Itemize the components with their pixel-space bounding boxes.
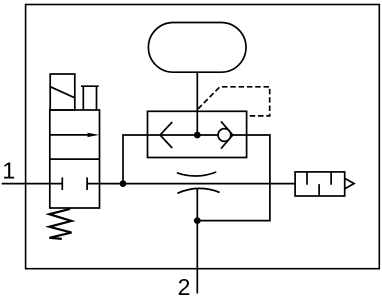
solenoid coil	[50, 74, 75, 110]
wire riser to valve block	[123, 135, 148, 184]
wire reservoir stem	[196, 72, 198, 135]
junction node port 2 tee	[194, 217, 201, 224]
blocked port bar right	[86, 177, 88, 190]
throttle upper arc	[177, 172, 216, 176]
exhaust flow chevron	[160, 122, 172, 148]
valve block body	[148, 111, 247, 157]
return spring	[49, 209, 71, 239]
silencer baffles	[307, 172, 331, 196]
pilot line (dashed)	[198, 87, 270, 116]
solenoid valve V1 body	[50, 110, 100, 208]
manual override button	[81, 86, 99, 110]
check valve ball	[218, 129, 231, 142]
solenoid diagonal	[50, 87, 75, 98]
internal flow line	[148, 134, 247, 136]
wire valve block outlet down to port 2 tee	[197, 135, 270, 221]
silencer outlet cone	[345, 178, 354, 189]
blocked port bar left	[61, 177, 63, 190]
wire main line valve outlet to silencer	[87, 183, 295, 185]
junction node valve outlet riser	[120, 180, 127, 187]
throttle lower arc	[177, 188, 219, 193]
flow path arrow (actuated position)	[50, 134, 90, 136]
wire port 2	[196, 188, 198, 293]
wire port 1 into valve	[2, 183, 63, 185]
check valve seat	[221, 121, 233, 148]
svg-text:2: 2	[178, 274, 191, 297]
air reservoir	[148, 23, 246, 73]
silencer body	[295, 172, 345, 196]
junction node stem to flow line	[194, 132, 201, 139]
valve position divider	[50, 158, 100, 160]
svg-text:1: 1	[2, 158, 15, 184]
